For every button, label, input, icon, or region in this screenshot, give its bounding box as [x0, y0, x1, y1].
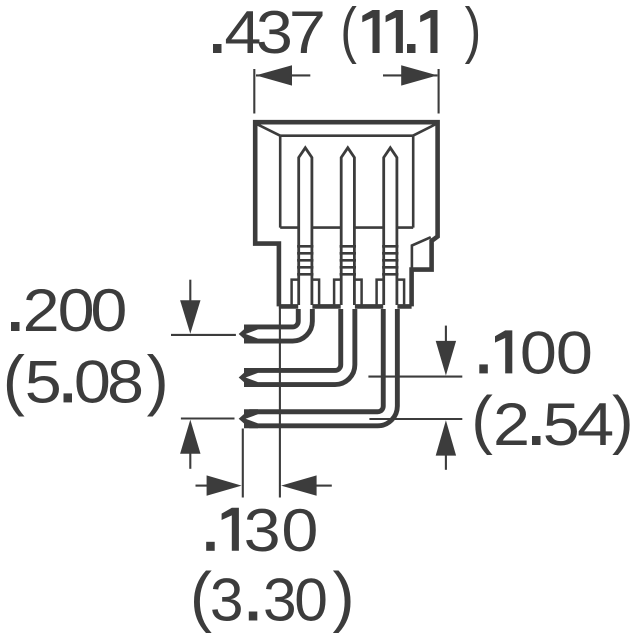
dim .130 right leader [316, 485, 332, 487]
svg-text:(: ( [471, 383, 493, 456]
dim .200 up arrow [189, 453, 191, 469]
pin 2 collar [334, 280, 362, 307]
svg-text:7: 7 [289, 0, 326, 66]
cavity right edge [412, 136, 415, 228]
body right chamfer inner line [412, 237, 431, 269]
connector body outer outline [255, 122, 437, 306]
cavity top-right chamfer [413, 124, 435, 135]
pin 1 bent lead dark [244, 309, 305, 334]
cavity top edge [280, 134, 413, 137]
svg-text:3: 3 [210, 566, 244, 634]
pin 3 ribs [382, 246, 398, 274]
dim .130 left leader [196, 485, 209, 487]
svg-text:2: 2 [493, 391, 530, 459]
pin 3 upper blade [384, 148, 397, 305]
pin 2 ribs [340, 246, 356, 274]
dim .130 right arrowhead [281, 475, 317, 495]
svg-text:0: 0 [90, 277, 127, 345]
pin 3 lead tip [239, 409, 258, 428]
dim .130 left extension line [242, 429, 244, 498]
dim .100 lower leader [369, 418, 462, 420]
svg-text:): ) [333, 560, 355, 634]
cavity bottom edge [280, 226, 413, 229]
pin 1 bent lead white core [254, 309, 305, 334]
pin 2 lead tip [239, 368, 258, 387]
svg-text:0: 0 [58, 277, 95, 345]
dim text (5.08) [3, 343, 169, 417]
pin 1 lead tip [239, 325, 258, 344]
dim .437 left arrowhead [256, 65, 292, 85]
dim text .100 [479, 319, 593, 387]
pin 3 bent lead dark [244, 309, 390, 419]
svg-text:3: 3 [244, 497, 281, 565]
body bottom edge segments [279, 304, 412, 309]
svg-text:3: 3 [263, 566, 297, 634]
pin 1 upper blade [299, 148, 312, 305]
svg-text:(: ( [190, 560, 212, 634]
pin 3 bent lead white core [254, 309, 390, 419]
pin 2 bent lead white core [254, 309, 348, 378]
pin 2 bent lead dark [244, 309, 348, 378]
cavity top-left chamfer [258, 124, 281, 135]
svg-text:5: 5 [25, 348, 62, 416]
dim .437 right extension line [438, 69, 440, 114]
svg-text:4: 4 [577, 391, 614, 459]
dim text .200 [11, 277, 127, 345]
pin 2 upper blade [341, 148, 354, 305]
cavity left edge [279, 136, 282, 228]
dim .437 left leader [256, 74, 310, 76]
svg-text:(: ( [3, 343, 25, 417]
dim .200 lower leader [181, 417, 235, 419]
dim .437 right arrowhead [401, 65, 437, 85]
dim text .130 [206, 497, 318, 565]
svg-text:2: 2 [23, 277, 60, 345]
dim text .437 (11.1) [213, 0, 481, 66]
dim .130 left arrowhead [207, 475, 242, 495]
pin 1 ribs [297, 246, 313, 274]
dim .437 right leader [383, 74, 437, 76]
dim text (3.30) [190, 560, 355, 634]
svg-text:): ) [612, 383, 634, 456]
pin 1 collar [292, 280, 320, 307]
dim .100 down arrow [445, 326, 447, 342]
svg-text:0: 0 [281, 497, 318, 565]
svg-text:8: 8 [107, 348, 144, 416]
svg-text:3: 3 [256, 0, 293, 66]
svg-text:(: ( [340, 0, 357, 64]
dim text (2.54) [471, 383, 633, 459]
svg-text:5: 5 [543, 391, 580, 459]
svg-text:0: 0 [294, 566, 328, 634]
pin 3 collar [377, 280, 405, 307]
svg-text:): ) [147, 343, 169, 417]
svg-text:0: 0 [556, 319, 593, 387]
svg-text:0: 0 [520, 319, 557, 387]
dim .130 right extension line [279, 307, 281, 498]
svg-text:): ) [465, 0, 482, 64]
dim .200 down arrow [189, 280, 191, 302]
svg-text:0: 0 [74, 348, 111, 416]
dim .200 upper leader [171, 334, 236, 336]
dim .437 left extension line [253, 69, 255, 114]
dim .100 upper leader [368, 376, 462, 378]
dim .100 up arrow [445, 455, 447, 470]
